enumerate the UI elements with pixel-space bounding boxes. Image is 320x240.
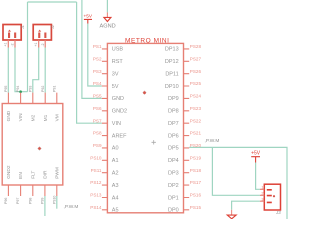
svg-text:DP11: DP11	[165, 72, 178, 78]
METRO right net labels PS28-PS15	[190, 44, 202, 210]
METRO left net labels PS1-PS14	[90, 44, 102, 210]
svg-text:DP9: DP9	[168, 96, 179, 102]
svg-text:P96: P96	[4, 198, 8, 204]
svg-text:PS23: PS23	[190, 106, 202, 111]
svg-text:AGND: AGND	[100, 23, 116, 29]
wire +5V to METRO 5V pin	[88, 24, 102, 87]
wire net PWM branch down to J3 pin2	[212, 147, 260, 195]
svg-text:PS8: PS8	[93, 131, 102, 136]
svg-text:J1: J1	[21, 25, 25, 29]
op IC METRO MINI U1	[107, 37, 183, 212]
svg-text:EN: EN	[18, 172, 24, 179]
svg-text:PS3: PS3	[93, 69, 102, 74]
svg-text:A5: A5	[112, 208, 119, 214]
wire VIN left vertical	[27, 2, 29, 92]
svg-text:DP6: DP6	[168, 133, 179, 139]
wire AGND from top edge	[106, 0, 108, 12]
svg-text:VIN: VIN	[18, 113, 24, 122]
svg-text:DP10: DP10	[165, 84, 179, 90]
svg-text:P91: P91	[52, 86, 56, 92]
svg-text:PS10: PS10	[90, 155, 102, 160]
svg-text:GND2: GND2	[112, 109, 127, 115]
svg-text:+1: +1	[34, 43, 38, 47]
supply +5V (left)	[84, 13, 93, 23]
svg-text:+5V: +5V	[84, 13, 93, 18]
svg-text:PS22: PS22	[190, 118, 202, 123]
svg-text:2: 2	[261, 192, 263, 196]
svg-text:PS1: PS1	[93, 44, 102, 49]
svg-text:A4: A4	[112, 195, 119, 201]
svg-text:PS4: PS4	[93, 81, 102, 86]
svg-text:M2: M2	[30, 114, 36, 121]
svg-text:GND2: GND2	[6, 165, 12, 179]
svg-text:A2: A2	[112, 171, 119, 177]
svg-text:P93: P93	[28, 86, 32, 92]
svg-text:PS7: PS7	[93, 118, 102, 123]
wire J2 pin2 to driver M1 pin	[44, 48, 46, 93]
svg-text:PS6: PS6	[93, 106, 102, 111]
svg-text:P910: P910	[52, 196, 56, 204]
svg-text:DIR: DIR	[43, 170, 49, 179]
svg-text:P99: P99	[41, 198, 45, 204]
svg-text:A3: A3	[112, 183, 119, 189]
wire VIN top horizontal	[28, 1, 77, 3]
supply +5V (right)	[251, 151, 261, 163]
svg-text:5V: 5V	[112, 84, 119, 90]
driver top pin stubs	[8, 93, 56, 104]
svg-text:J3: J3	[275, 210, 281, 215]
junction dot VIN	[19, 90, 22, 93]
ground AGND (bottom right)	[227, 210, 236, 219]
svg-text:1: 1	[261, 186, 263, 190]
svg-text:3V: 3V	[112, 72, 119, 78]
svg-text:P92: P92	[41, 86, 45, 92]
svg-text:PS25: PS25	[190, 81, 202, 86]
svg-text:PS12: PS12	[90, 180, 102, 185]
svg-text:PS17: PS17	[190, 180, 202, 185]
svg-text:A1: A1	[112, 158, 119, 164]
connector J1	[3, 25, 25, 48]
wire VIN right vertical to METRO VIN pin	[77, 2, 102, 123]
svg-text:PS15: PS15	[190, 205, 202, 210]
wire +5V to J3 pin1	[256, 163, 260, 190]
svg-text:PS18: PS18	[190, 168, 202, 173]
svg-text:GND: GND	[6, 110, 12, 121]
svg-text:P95: P95	[4, 86, 8, 92]
svg-text:DP12: DP12	[165, 59, 179, 65]
svg-text:PWM: PWM	[54, 167, 60, 179]
svg-text:USB: USB	[112, 47, 124, 53]
svg-text:PS24: PS24	[190, 94, 202, 99]
svg-text:VM: VM	[54, 114, 60, 121]
svg-text:DP7: DP7	[168, 121, 179, 127]
svg-text:FLT: FLT	[30, 171, 36, 179]
driver bottom pin stubs	[8, 185, 56, 196]
svg-text:DP4: DP4	[168, 158, 179, 164]
svg-text:P94: P94	[16, 86, 20, 92]
transistor driver U2 box	[2, 104, 63, 186]
svg-text:PS19: PS19	[190, 155, 202, 160]
wire J1 pin2 to VIN junction	[15, 48, 28, 92]
svg-text:PS28: PS28	[190, 44, 202, 49]
svg-text:PS5: PS5	[93, 94, 102, 99]
svg-text:P97: P97	[16, 198, 20, 204]
driver bottom pin names	[6, 165, 60, 179]
wire J2 pin1 to driver M2 pin	[33, 48, 39, 93]
wire J1 pin1 to driver GND pin	[7, 48, 9, 93]
svg-text:PS11: PS11	[91, 168, 102, 173]
svg-text:P98: P98	[28, 198, 32, 204]
svg-text:3: 3	[261, 198, 263, 202]
svg-text:DP13: DP13	[165, 47, 179, 53]
svg-text:+1: +1	[4, 43, 8, 47]
svg-text:PS16: PS16	[190, 193, 202, 198]
driver top net labels	[4, 86, 56, 92]
wire driver PWM down to label	[56, 196, 58, 209]
svg-text:RST: RST	[112, 59, 124, 65]
svg-text:PS13: PS13	[90, 193, 102, 198]
svg-text:VIN: VIN	[112, 121, 121, 127]
wire driver DIR down (cut off)	[44, 196, 46, 216]
METRO right pin names	[165, 47, 179, 214]
METRO left pin stubs	[102, 49, 108, 210]
svg-text:PS20: PS20	[190, 143, 202, 148]
wire GND from top edge to METRO GND pin	[82, 0, 102, 98]
svg-text:PS2: PS2	[93, 56, 102, 61]
svg-text:DP3: DP3	[168, 171, 179, 177]
svg-text:DP1: DP1	[168, 195, 179, 201]
ground AGND (top)	[100, 12, 116, 29]
METRO left pin names	[112, 47, 127, 214]
svg-text:PS21: PS21	[190, 131, 202, 136]
wire junction to driver VIN pin	[20, 92, 22, 93]
connector J2	[33, 25, 55, 48]
svg-text:DP8: DP8	[168, 109, 179, 115]
svg-text:PS14: PS14	[90, 205, 102, 210]
svg-text:J2: J2	[51, 25, 55, 29]
driver top pin names	[6, 110, 60, 121]
wire net PWM long horizontal to right edge and down	[189, 147, 287, 219]
svg-text:PS9: PS9	[93, 143, 102, 148]
svg-text:M1: M1	[43, 114, 49, 121]
svg-text:PS27: PS27	[190, 56, 202, 61]
svg-text:-2: -2	[10, 43, 14, 46]
connector J3	[260, 184, 281, 215]
svg-text:DP5: DP5	[168, 146, 179, 152]
wire J3 pin3 to AGND	[232, 201, 260, 210]
svg-text:GND: GND	[112, 96, 124, 102]
svg-text:A0: A0	[112, 146, 119, 152]
svg-text:,P.W.M: ,P.W.M	[64, 204, 79, 210]
svg-text:DP0: DP0	[168, 208, 179, 214]
svg-text:,P.W.M: ,P.W.M	[205, 138, 220, 144]
METRO right pin stubs	[184, 49, 190, 210]
svg-text:+5V: +5V	[251, 151, 261, 157]
svg-text:-2: -2	[41, 43, 45, 46]
svg-text:DP2: DP2	[168, 183, 179, 189]
driver bottom net labels	[4, 196, 56, 204]
svg-text:AREF: AREF	[112, 133, 127, 139]
svg-text:PS26: PS26	[190, 69, 202, 74]
